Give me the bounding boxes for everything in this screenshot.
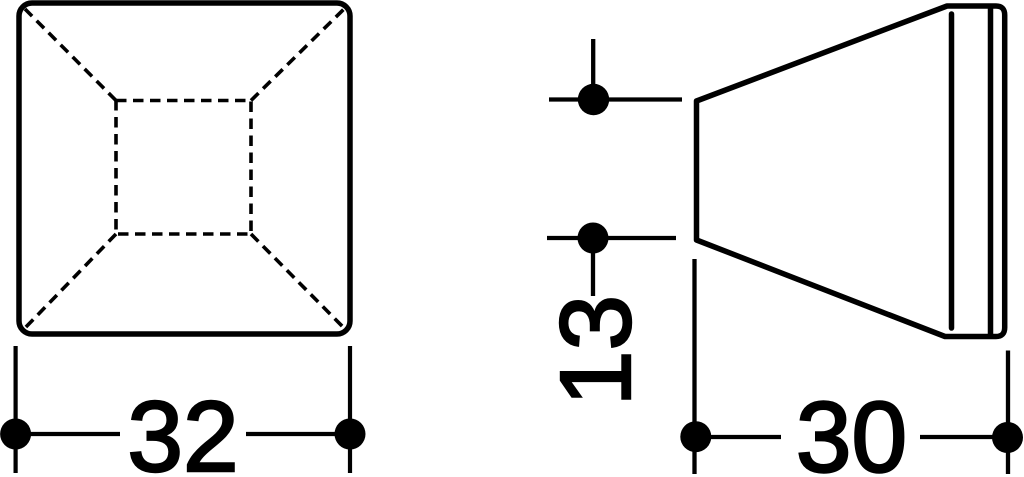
svg-text:32: 32 bbox=[127, 381, 238, 477]
svg-text:13: 13 bbox=[540, 295, 652, 406]
svg-text:30: 30 bbox=[796, 382, 907, 477]
